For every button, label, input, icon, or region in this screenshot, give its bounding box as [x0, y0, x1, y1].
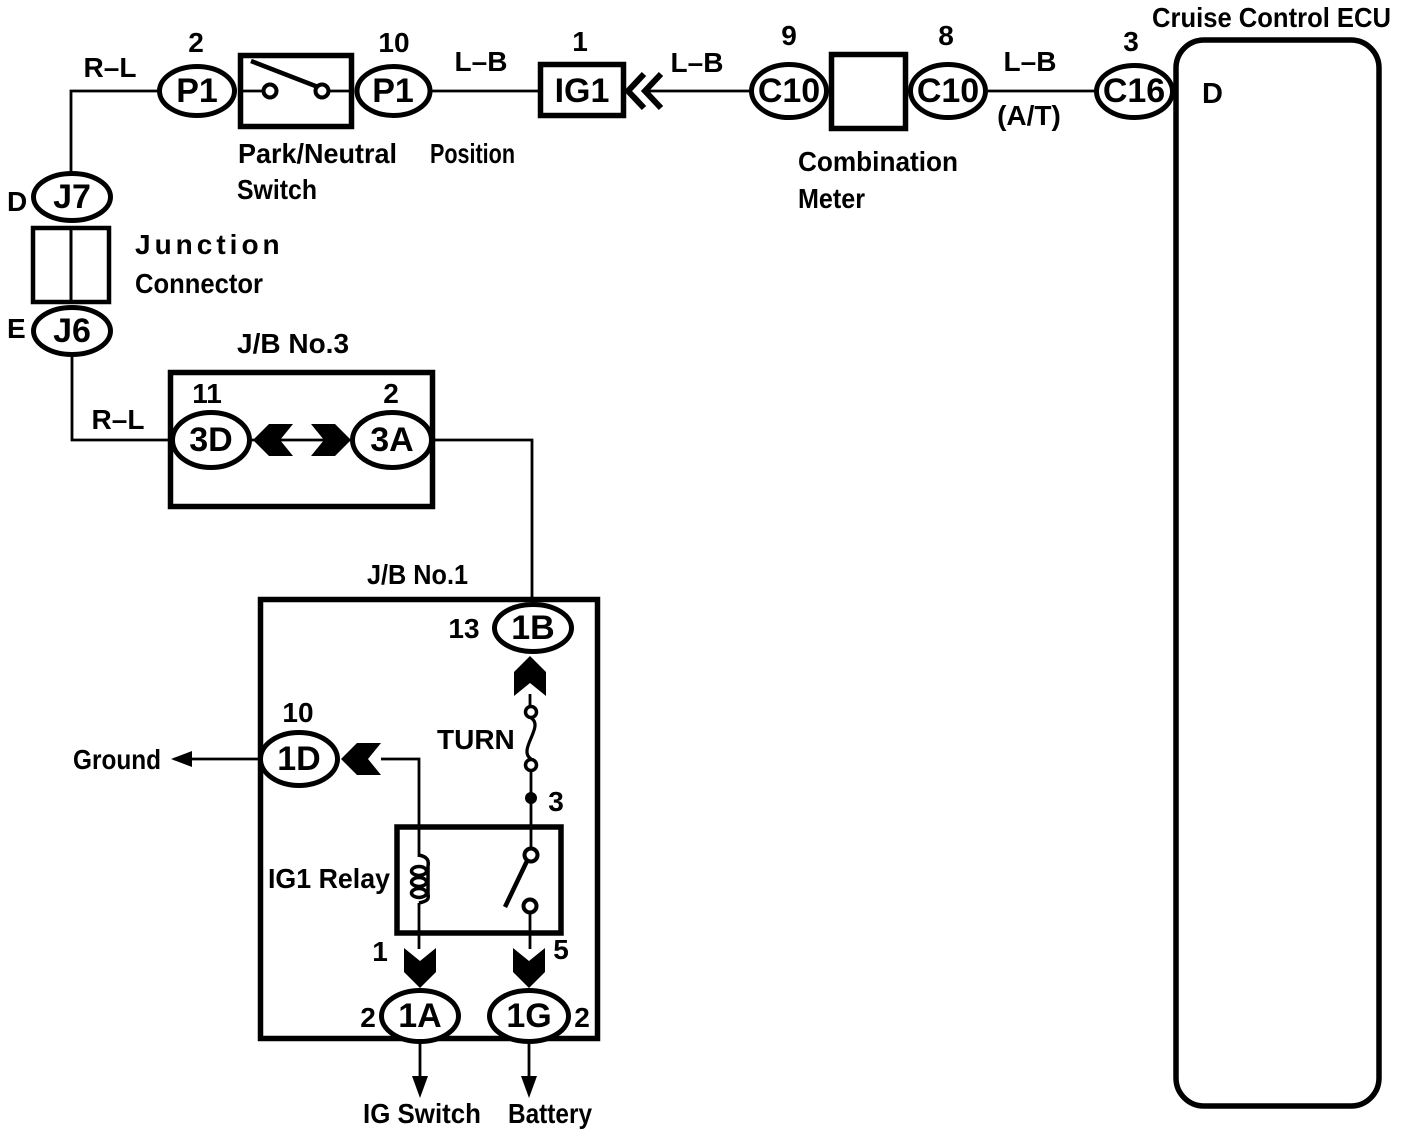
- svg-text:1D: 1D: [277, 740, 320, 778]
- double chevron arrows at IG1: [628, 74, 661, 108]
- svg-text:3A: 3A: [370, 421, 413, 459]
- svg-text:5: 5: [553, 934, 569, 965]
- wire ground from 1D: [174, 758, 258, 761]
- svg-text:8: 8: [938, 20, 954, 51]
- svg-text:D: D: [1202, 78, 1223, 110]
- wire 1A to IG Switch: [419, 1044, 422, 1080]
- svg-text:Position: Position: [430, 138, 515, 169]
- svg-text:R–L: R–L: [92, 404, 145, 435]
- svg-text:1B: 1B: [511, 609, 554, 647]
- arrow right between 3D and 3A: [311, 424, 351, 456]
- arrow down above 1A: [404, 948, 436, 988]
- J/B No.3 box: [171, 373, 433, 507]
- connector P1 pin 10: [357, 67, 430, 116]
- wire switch to 1G arrow: [529, 913, 532, 949]
- Combination Meter box: [832, 55, 906, 129]
- connector 3D pin 11: [173, 413, 250, 468]
- connector J6: [34, 308, 111, 355]
- wire 1D arrow to relay coil: [381, 759, 419, 857]
- svg-text:3: 3: [1123, 26, 1139, 57]
- Park/Neutral Position Switch box: [241, 56, 352, 127]
- svg-text:J7: J7: [53, 178, 91, 216]
- svg-text:C10: C10: [917, 72, 979, 110]
- svg-text:C16: C16: [1103, 72, 1165, 110]
- svg-text:3: 3: [548, 786, 564, 817]
- svg-text:11: 11: [192, 378, 222, 409]
- svg-text:Combination: Combination: [798, 146, 958, 177]
- svg-text:L–B: L–B: [455, 46, 508, 77]
- ground arrowhead: [171, 751, 192, 767]
- svg-text:E: E: [7, 313, 26, 344]
- svg-text:2: 2: [574, 1002, 590, 1033]
- wire fuse to relay switch: [530, 771, 533, 849]
- svg-text:10: 10: [282, 697, 313, 728]
- relay switch contact bottom: [524, 900, 537, 913]
- connector 1D pin 10: [261, 733, 338, 786]
- svg-text:L–B: L–B: [671, 47, 724, 78]
- node 3 junction dot: [525, 792, 537, 804]
- svg-text:J/B No.1: J/B No.1: [367, 559, 468, 590]
- svg-text:13: 13: [448, 613, 479, 644]
- relay switch contact top: [525, 849, 538, 862]
- svg-text:L–B: L–B: [1004, 46, 1057, 77]
- connector 3A pin 2: [353, 413, 432, 468]
- Cruise Control ECU box: [1176, 40, 1379, 1106]
- fuse IG1 box: [541, 65, 624, 116]
- wire R-L from J7 up to P1: [71, 91, 158, 172]
- J/B No.1 box: [261, 600, 598, 1039]
- arrow up below 1B: [514, 656, 546, 696]
- svg-text:Connector: Connector: [135, 268, 263, 299]
- svg-text:1: 1: [572, 26, 588, 57]
- svg-text:10: 10: [378, 27, 409, 58]
- wire 3A to 1B: [434, 440, 532, 604]
- relay coil: [419, 855, 428, 903]
- arrow left between 3D and 3A: [253, 424, 293, 456]
- svg-text:IG Switch: IG Switch: [363, 1098, 481, 1129]
- wire P1 to IG1: [432, 90, 540, 93]
- connector P1 pin 2: [160, 67, 235, 116]
- svg-text:P1: P1: [176, 72, 218, 110]
- wire C10 to C16: [988, 90, 1096, 93]
- junction connector divider: [70, 226, 73, 304]
- svg-text:2: 2: [383, 378, 399, 409]
- arrow down above 1G: [513, 948, 545, 988]
- svg-text:P1: P1: [372, 72, 414, 110]
- svg-text:Switch: Switch: [237, 174, 317, 205]
- svg-text:IG1: IG1: [555, 72, 610, 110]
- svg-text:TURN: TURN: [437, 724, 515, 755]
- fuse TURN: [526, 707, 537, 718]
- IG1 Relay box: [397, 827, 561, 933]
- svg-text:Junction: Junction: [135, 229, 284, 260]
- switch contacts and blade inside P/N switch: [241, 90, 263, 93]
- connector 1A pin 2: [382, 991, 459, 1042]
- junction connector box: [33, 228, 109, 302]
- svg-text:2: 2: [188, 27, 204, 58]
- arrow left at 1D: [341, 743, 381, 775]
- connector C10 pin 8: [911, 65, 986, 118]
- svg-text:1: 1: [372, 936, 388, 967]
- connector 1G pin 2: [490, 991, 569, 1042]
- wire arrow to fuse TURN: [529, 694, 532, 708]
- svg-text:Park/Neutral: Park/Neutral: [238, 138, 397, 169]
- svg-text:9: 9: [781, 20, 797, 51]
- svg-text:C10: C10: [758, 72, 820, 110]
- wire coil to 1A arrow: [418, 903, 421, 949]
- svg-text:1A: 1A: [398, 997, 441, 1035]
- svg-text:R–L: R–L: [84, 52, 137, 83]
- svg-text:J/B No.3: J/B No.3: [237, 328, 349, 359]
- svg-text:1G: 1G: [506, 997, 551, 1035]
- svg-text:(A/T): (A/T): [997, 100, 1061, 131]
- svg-text:J6: J6: [53, 312, 91, 350]
- svg-text:Ground: Ground: [73, 744, 161, 775]
- connector 1B pin 13: [495, 605, 572, 652]
- connector C16 pin 3: [1097, 66, 1173, 118]
- svg-text:3D: 3D: [189, 421, 232, 459]
- svg-text:IG1 Relay: IG1 Relay: [268, 863, 390, 894]
- wire 1G to Battery: [528, 1044, 531, 1080]
- svg-text:Cruise Control ECU: Cruise Control ECU: [1152, 2, 1391, 33]
- svg-text:Meter: Meter: [798, 183, 865, 214]
- svg-text:2: 2: [360, 1002, 376, 1033]
- wire J6 down to 3D: [72, 357, 170, 440]
- wire between 3D and 3A: [252, 439, 352, 442]
- connector C10 pin 9: [752, 65, 827, 118]
- relay switch blade: [505, 861, 527, 907]
- wire IG1 arrows to C10: [646, 90, 751, 93]
- svg-text:D: D: [7, 186, 27, 217]
- connector J7: [34, 174, 111, 221]
- svg-text:Battery: Battery: [508, 1098, 592, 1129]
